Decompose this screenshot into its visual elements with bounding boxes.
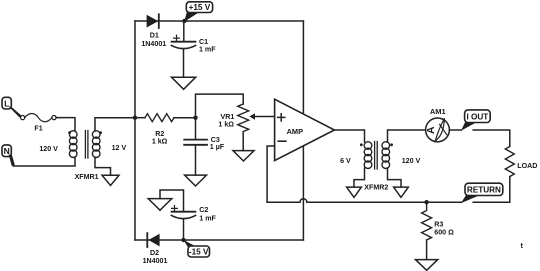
wire VR1 wiper to op-amp + [255,116,275,118]
wire I OUT to load [473,130,510,147]
wire top +15V rail [135,20,303,22]
wire op-amp minus feedback stub [267,146,275,202]
terminal L [2,97,11,109]
wire C3 to ground [195,145,197,175]
svg-text:D1: D1 [150,32,159,40]
wire fuse to XFMR1 primary top [56,118,75,131]
wire ammeter to I OUT point [449,129,461,131]
transformer XFMR1 [68,131,102,181]
svg-text:-15 V: -15 V [189,248,209,257]
svg-text:XFMR2: XFMR2 [364,183,388,191]
svg-text:1N4001: 1N4001 [143,257,168,265]
node bus / R2 junction [133,116,137,120]
wire +15V node to C1 [183,22,185,42]
ammeter AM1 [425,107,449,142]
capacitor C2 [171,206,216,223]
wire node down to C3 [195,118,197,140]
svg-text:A: A [425,126,437,134]
ground (XFMR2 secondary) [394,187,409,197]
svg-text:R3: R3 [434,220,443,228]
wire N to XFMR1 primary bottom [14,157,76,166]
svg-text:LOAD: LOAD [517,162,537,170]
wire R3 to ground [426,240,428,260]
wire feedback line left segment [267,201,300,203]
RETURN terminal label [465,183,503,195]
wire VR1 to ground [242,132,244,151]
node R3 junction [424,200,428,204]
wire V+ stub to op-amp [302,21,304,114]
op-amp AMP [275,99,335,160]
ground (R3) [416,260,438,271]
capacitor C3 [184,136,225,151]
resistor R2 [145,114,174,146]
RETURN flag pointer [461,195,480,204]
ground (C1) [172,77,196,89]
-15V flag pointer [183,240,198,248]
svg-text:D2: D2 [150,249,159,257]
svg-text:+15 V: +15 V [189,3,211,12]
ground (VR1) [233,151,254,161]
wire hop over V- stub [300,199,307,202]
ground (C2) [148,199,172,211]
I OUT terminal label [465,110,491,123]
wire C1 to ground [183,49,185,77]
terminal N [2,145,11,157]
wire node up and over to VR1 [196,94,244,118]
wire XFMR2 secondary top to ammeter [388,130,426,142]
svg-text:L: L [4,99,9,109]
svg-text:I OUT: I OUT [466,112,488,121]
node -15V junction [181,238,185,242]
wire V- stub from op-amp [302,146,304,240]
svg-text:1 kΩ: 1 kΩ [218,120,234,128]
svg-text:AM1: AM1 [430,107,446,116]
wire op-amp output [334,130,364,142]
-15V terminal label [188,246,210,257]
svg-text:1N4001: 1N4001 [141,40,166,48]
node +15V junction [182,19,186,23]
fuse F1 [21,113,57,132]
diode D1 [141,14,166,48]
capacitor C1 [171,35,216,53]
wire XFMR2 primary bottom to ground [354,168,365,187]
svg-text:F1: F1 [34,125,42,133]
transformer XFMR2 [360,142,393,192]
wire C2 top to ground [160,190,184,212]
wire R2 to node [174,117,196,119]
wire XFMR1 secondary bottom to ground [95,157,111,175]
wire bus to R2 [135,117,145,119]
svg-text:120 V: 120 V [39,145,58,153]
svg-text:120 V: 120 V [402,157,421,165]
I OUT flag pointer [461,122,477,131]
ground (XFMR1) [102,175,119,185]
wire C2 bottom to -15V rail [183,219,185,240]
wire feedback line to return node [307,201,461,203]
svg-text:6 V: 6 V [340,157,351,165]
svg-text:t: t [521,241,524,250]
ground (XFMR2 primary) [347,187,362,197]
+15V terminal label [186,2,212,13]
L flag pointer [8,106,21,117]
wire load to return line [473,177,510,203]
wire XFMR2 secondary bottom to ground [388,168,402,187]
svg-text:XFMR1: XFMR1 [75,173,99,181]
svg-text:600 Ω: 600 Ω [434,229,454,237]
node R2/C3/VR1 [193,116,197,120]
ground (C3) [185,175,207,186]
wire bottom -15V rail [135,239,303,241]
resistor LOAD [505,147,537,177]
diode D2 [143,233,168,265]
N flag pointer [9,154,15,166]
svg-text:AMP: AMP [287,127,303,136]
wire left supply bus [134,21,136,240]
svg-text:12 V: 12 V [112,144,127,152]
svg-text:RETURN: RETURN [467,186,501,195]
resistor R3 [422,202,455,240]
+15V flag pointer [184,12,199,22]
svg-text:C2: C2 [199,206,208,214]
svg-text:1 mF: 1 mF [199,214,216,222]
svg-text:1 kΩ: 1 kΩ [152,138,168,146]
svg-text:1 mF: 1 mF [199,46,216,54]
potentiometer VR1 [218,104,255,132]
svg-text:1 µF: 1 µF [210,143,225,151]
wire XFMR1 secondary top to bus [95,118,135,131]
